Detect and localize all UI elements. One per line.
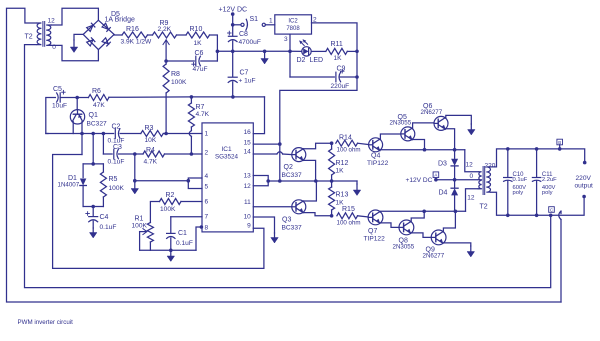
svg-text:A: A xyxy=(434,173,437,178)
label Q2 xyxy=(284,164,293,171)
wire Q3 collector xyxy=(303,181,316,201)
svg-text:+12V DC: +12V DC xyxy=(406,177,433,184)
resistor R16 xyxy=(122,32,148,38)
svg-text:7808: 7808 xyxy=(286,26,300,32)
label 100 ohm xyxy=(337,147,361,154)
svg-text:0.1uF: 0.1uF xyxy=(513,177,528,183)
wire IC2 pin2 right-down xyxy=(312,23,358,77)
diode D1 xyxy=(80,179,87,207)
wire bottom gnd row xyxy=(140,249,196,251)
label R1 xyxy=(135,216,144,223)
label TIP122 xyxy=(364,236,386,243)
junction xyxy=(190,95,194,99)
svg-text:C3: C3 xyxy=(113,144,122,151)
label 220 xyxy=(485,163,496,170)
svg-text:1K: 1K xyxy=(194,40,203,47)
diode D4 xyxy=(451,180,458,212)
terminal xyxy=(583,161,587,165)
wire Q1 collector leg xyxy=(81,122,83,155)
wire R6 to R7 to C7 bus xyxy=(109,96,265,98)
label 2N6277 xyxy=(421,109,443,116)
ground (Q9) xyxy=(467,246,475,257)
pin 10 label xyxy=(244,214,252,221)
wire R9 to R10 xyxy=(177,34,187,36)
label 0 (input secondary bottom) xyxy=(52,44,56,51)
junction xyxy=(80,132,84,136)
svg-text:Q1: Q1 xyxy=(89,112,98,119)
svg-text:2N3055: 2N3055 xyxy=(393,244,415,251)
wire node to R6 xyxy=(77,97,88,99)
wire C3 riser xyxy=(103,134,112,155)
label 100 ohm xyxy=(337,220,361,227)
svg-text:SG3524: SG3524 xyxy=(215,154,239,161)
label 2N3055 xyxy=(390,120,412,127)
label 10K xyxy=(145,137,157,144)
svg-text:2N6277: 2N6277 xyxy=(423,253,445,260)
label TIP122 xyxy=(367,160,389,167)
label 0.1uF xyxy=(108,138,125,145)
ground (Q6) xyxy=(468,124,476,135)
svg-text:poly: poly xyxy=(513,190,524,196)
label +12V DC xyxy=(219,7,248,14)
label R10 xyxy=(190,26,203,33)
label title xyxy=(18,319,74,326)
wire emitter rail top xyxy=(380,149,464,151)
pin 12 label xyxy=(244,183,252,190)
svg-text:+ 1uF: + 1uF xyxy=(239,78,256,85)
svg-text:3: 3 xyxy=(284,36,288,43)
svg-text:R5: R5 xyxy=(109,176,118,183)
svg-text:0.1uF: 0.1uF xyxy=(100,224,117,231)
svg-text:1K: 1K xyxy=(334,55,343,62)
resistor R8 xyxy=(163,61,169,134)
junction xyxy=(453,178,457,182)
svg-text:D3: D3 xyxy=(438,161,447,168)
net tag B xyxy=(557,139,563,149)
wire C3 to R4 xyxy=(119,153,135,155)
wire Q6 collector to gnd xyxy=(446,115,472,124)
wire Q6 emitter xyxy=(446,129,455,150)
junction xyxy=(91,132,95,136)
transistor Q3 xyxy=(292,200,306,214)
svg-text:1K: 1K xyxy=(336,168,345,175)
junction xyxy=(91,205,95,209)
label D3 xyxy=(438,161,447,168)
junction xyxy=(231,95,235,99)
label Q7 xyxy=(368,228,377,235)
transistor Q6 xyxy=(434,116,448,130)
label 1K xyxy=(334,55,343,62)
resistor R12 xyxy=(329,143,335,181)
label pin1 IC2 xyxy=(269,17,273,24)
junction xyxy=(535,214,539,218)
wire D1R5 box bottom xyxy=(83,206,103,208)
capacitor C11 xyxy=(532,149,540,215)
label 4700uF xyxy=(239,39,261,46)
svg-text:R8: R8 xyxy=(171,71,180,78)
wire outer feedback loop left/top (net C) xyxy=(7,8,562,302)
wire pin15 xyxy=(253,143,279,145)
label Q3 xyxy=(282,217,291,224)
label R5 xyxy=(109,176,118,183)
resistor R13 xyxy=(329,181,335,216)
label 400V xyxy=(542,185,556,191)
label 3.9K 1/2W xyxy=(121,39,153,46)
wire Q3 emitter xyxy=(303,213,331,216)
svg-text:100K: 100K xyxy=(132,223,148,230)
transistor Q1 xyxy=(70,98,84,125)
capacitor C7 xyxy=(228,51,237,97)
label 0 xyxy=(470,173,474,180)
svg-text:3.9K 1/2W: 3.9K 1/2W xyxy=(121,39,153,46)
junction xyxy=(355,75,359,79)
label C2 xyxy=(112,124,121,131)
svg-text:C6: C6 xyxy=(195,50,204,57)
diode D3 xyxy=(451,150,458,180)
svg-text:1A Bridge: 1A Bridge xyxy=(105,17,135,24)
wire R4 to pin2 xyxy=(165,153,203,155)
label C9 xyxy=(337,66,346,73)
wire +12V to T2 center xyxy=(436,179,478,181)
junction (R7 to pin2 row) xyxy=(190,152,194,156)
transistor Q5 xyxy=(401,127,415,141)
label R14 xyxy=(339,135,352,142)
junction xyxy=(454,210,458,214)
junction xyxy=(278,179,282,183)
svg-text:R13: R13 xyxy=(336,192,349,199)
label D5 xyxy=(111,11,120,18)
label 100K xyxy=(171,79,187,86)
svg-text:2: 2 xyxy=(205,150,209,157)
svg-text:Q2: Q2 xyxy=(284,164,293,171)
junction xyxy=(266,179,270,183)
label 1N4007 xyxy=(58,182,80,189)
label 100K xyxy=(109,185,125,192)
resistor R5 xyxy=(100,172,106,207)
ground (bus) xyxy=(261,54,269,65)
junction xyxy=(187,179,191,183)
label C7 xyxy=(240,70,249,77)
wire Q2 collector xyxy=(303,143,331,149)
junction xyxy=(278,142,282,146)
wire C2 to R3 xyxy=(120,133,141,135)
wiper R9 xyxy=(163,40,169,61)
junction xyxy=(288,50,292,54)
junction xyxy=(330,214,334,218)
wire Q4 emitter leg xyxy=(379,149,382,152)
label 47K xyxy=(93,102,105,109)
label 1K xyxy=(194,40,203,47)
svg-text:9: 9 xyxy=(247,223,251,230)
svg-text:R4: R4 xyxy=(146,147,155,154)
label C1 xyxy=(178,230,187,237)
svg-text:11: 11 xyxy=(244,199,251,206)
label R13 xyxy=(336,192,349,199)
svg-text:poly: poly xyxy=(542,190,553,196)
junction xyxy=(231,50,235,54)
svg-text:10uF: 10uF xyxy=(52,103,67,110)
label 10uF xyxy=(52,103,67,110)
junction (R8 to pin1 row) xyxy=(164,132,168,136)
wire pin7 xyxy=(171,216,202,218)
resistor R3 xyxy=(141,131,164,137)
label output xyxy=(575,183,594,190)
svg-text:Q4: Q4 xyxy=(371,153,380,160)
svg-text:12: 12 xyxy=(48,18,56,25)
transistor Q9 xyxy=(431,230,446,245)
svg-text:IC2: IC2 xyxy=(288,19,298,25)
junction xyxy=(558,147,562,151)
svg-text:2N3055: 2N3055 xyxy=(390,120,412,127)
wire D1R5 box top xyxy=(83,164,103,178)
label C4 xyxy=(100,214,109,221)
led D2 xyxy=(299,39,311,56)
svg-text:IC1: IC1 xyxy=(221,146,232,153)
wire bus to pin16 xyxy=(253,97,264,134)
label C3 xyxy=(113,144,122,151)
wire pins 4/5 bracket xyxy=(188,178,202,189)
svg-text:13: 13 xyxy=(244,173,252,180)
pin 1 label xyxy=(205,131,209,138)
wiper R1 xyxy=(140,229,147,251)
label 4.7K xyxy=(144,159,158,166)
svg-text:12: 12 xyxy=(244,183,252,190)
junction xyxy=(314,179,318,183)
label D2 xyxy=(297,57,306,64)
pin 5 label xyxy=(205,184,209,191)
svg-text:C2: C2 xyxy=(112,124,121,131)
wire Q8 emitter to Q9 base xyxy=(411,233,431,238)
junction (Q1 base node) xyxy=(75,96,79,100)
label LED xyxy=(310,57,324,64)
svg-text:R7: R7 xyxy=(196,104,205,111)
svg-text:TIP122: TIP122 xyxy=(367,160,389,167)
wire pin10 xyxy=(253,217,274,233)
label 1K xyxy=(336,200,345,207)
wire bus +12V row xyxy=(217,50,301,52)
junction xyxy=(133,179,137,183)
svg-text:C9: C9 xyxy=(337,66,346,73)
svg-text:6: 6 xyxy=(205,199,209,206)
svg-text:D2: D2 xyxy=(297,57,306,64)
label Q5 xyxy=(398,114,407,121)
ground (bridge) xyxy=(70,40,78,53)
junction xyxy=(102,132,106,136)
junction xyxy=(91,162,95,166)
label C8 xyxy=(239,31,248,38)
wire C6 right xyxy=(201,60,218,62)
junction xyxy=(169,249,173,253)
capacitor C10 xyxy=(504,149,512,215)
junction xyxy=(133,152,137,156)
label R3 xyxy=(145,125,154,132)
wire C9 left xyxy=(290,51,334,77)
svg-text:Q3: Q3 xyxy=(282,217,291,224)
svg-text:12: 12 xyxy=(467,195,475,202)
junction (R9 wiper/R8/C6) xyxy=(164,59,168,63)
transistor Q8 xyxy=(399,220,414,235)
pin 2 label xyxy=(205,150,209,157)
svg-text:R1: R1 xyxy=(135,216,144,223)
svg-text:14: 14 xyxy=(244,149,252,156)
svg-text:C4: C4 xyxy=(100,214,109,221)
svg-text:15: 15 xyxy=(244,140,252,147)
svg-text:R3: R3 xyxy=(145,125,154,132)
pin 11 label xyxy=(244,199,251,206)
pin 14 label xyxy=(244,149,252,156)
svg-text:S1: S1 xyxy=(250,16,259,23)
svg-text:220V: 220V xyxy=(576,175,592,182)
svg-text:4: 4 xyxy=(205,173,209,180)
pin 13 label xyxy=(244,173,252,180)
wire secondary-bottom to bridge xyxy=(52,45,99,60)
svg-text:2: 2 xyxy=(313,16,317,23)
junction (pin8) xyxy=(200,225,204,229)
svg-text:R11: R11 xyxy=(331,41,343,48)
label C5 xyxy=(53,86,62,93)
transistor Q2 xyxy=(292,148,306,162)
label R6 xyxy=(92,88,101,95)
junction xyxy=(453,148,457,152)
label R11 xyxy=(331,41,343,48)
label R15 xyxy=(342,206,355,213)
svg-text:R16: R16 xyxy=(126,26,139,33)
wire Q5 collector to Q6 base xyxy=(413,123,434,129)
label 0.1uF xyxy=(100,224,117,231)
wire riser to D1R5 box xyxy=(92,134,94,164)
svg-text:2.2uF: 2.2uF xyxy=(542,177,557,183)
label 0.1uF xyxy=(108,159,125,166)
wire 8V rail xyxy=(268,181,357,184)
wire Q2 emitter xyxy=(303,160,315,181)
svg-text:Q7: Q7 xyxy=(368,228,377,235)
label Q6 xyxy=(423,103,432,110)
transformer T2 (output) xyxy=(478,167,491,195)
label + 1uF xyxy=(239,78,256,85)
wire rail to T2 pri top xyxy=(465,150,478,172)
bridge rectifier D5 xyxy=(83,20,114,49)
label BC327 xyxy=(87,121,107,128)
svg-text:C7: C7 xyxy=(240,70,249,77)
svg-text:PWM inverter circuit: PWM inverter circuit xyxy=(18,319,74,326)
svg-text:T2: T2 xyxy=(25,34,33,41)
wire Q9 emitter to gnd xyxy=(443,243,470,246)
wire Q9 collector xyxy=(443,211,455,232)
resistor R4 xyxy=(143,151,165,157)
terminal xyxy=(582,195,586,199)
junction xyxy=(263,50,267,54)
junction xyxy=(330,141,334,145)
capacitor C4 xyxy=(86,207,98,229)
resistor R15 xyxy=(337,213,358,219)
junction xyxy=(535,147,539,151)
wire bridge-right to R16 xyxy=(114,34,122,36)
svg-text:BC337: BC337 xyxy=(282,172,302,179)
label Q9 xyxy=(426,247,435,254)
wire xyxy=(135,153,143,155)
capacitor C9 xyxy=(336,69,357,81)
wire rail to T2 pri bottom xyxy=(466,189,478,212)
label T2 (output) xyxy=(480,204,488,211)
junction xyxy=(355,50,359,54)
regulator IC2 7808 xyxy=(275,15,312,34)
pin 16 label xyxy=(244,129,252,136)
svg-text:1N4007: 1N4007 xyxy=(58,182,80,189)
label 2N6277 xyxy=(423,253,445,260)
label BC337 xyxy=(282,225,302,232)
svg-text:T2: T2 xyxy=(480,204,488,211)
label Q8 xyxy=(399,238,408,245)
svg-text:12: 12 xyxy=(466,162,474,169)
svg-text:C8: C8 xyxy=(239,31,248,38)
svg-text:R2: R2 xyxy=(166,192,175,199)
label D4 xyxy=(439,190,448,197)
label R16 xyxy=(126,26,139,33)
svg-text:BC327: BC327 xyxy=(87,121,107,128)
label D1 xyxy=(68,175,77,182)
label poly xyxy=(513,190,524,196)
wire Q1 emitter leg xyxy=(72,122,74,134)
svg-text:100 ohm: 100 ohm xyxy=(337,220,361,227)
wire pin8 xyxy=(196,227,201,250)
wire sec top xyxy=(491,149,585,167)
pin 4 label xyxy=(205,173,209,180)
wire pin11 to Q3 xyxy=(253,206,291,208)
capacitor C8 xyxy=(228,31,238,51)
svg-text:10: 10 xyxy=(244,214,252,221)
label R8 xyxy=(171,71,180,78)
svg-text:R12: R12 xyxy=(336,160,349,167)
net tag C xyxy=(549,207,555,213)
label R9 xyxy=(160,20,169,27)
wire R3 to pin1 xyxy=(163,133,202,135)
junction xyxy=(422,210,426,214)
svg-text:R14: R14 xyxy=(339,135,352,142)
wire C5 right to node xyxy=(60,97,77,99)
svg-text:5: 5 xyxy=(205,184,209,191)
label 4.7K xyxy=(196,111,210,118)
transistor Q4 xyxy=(369,138,383,152)
label 12 (top) xyxy=(466,162,474,169)
resistor R1 (preset) xyxy=(147,223,153,251)
capacitor C3 xyxy=(114,149,119,159)
junction xyxy=(423,148,427,152)
label 2N3055 xyxy=(393,244,415,251)
label poly xyxy=(542,190,553,196)
svg-text:R15: R15 xyxy=(342,206,355,213)
resistor R14 xyxy=(336,140,358,146)
svg-text:220uF: 220uF xyxy=(331,83,350,90)
svg-text:BC337: BC337 xyxy=(282,225,302,232)
wire Q5 emitter xyxy=(413,140,425,150)
resistor R7 xyxy=(188,97,194,154)
label C6 xyxy=(195,50,204,57)
svg-text:output: output xyxy=(575,183,594,190)
resistor R2 xyxy=(160,199,182,205)
svg-text:10K: 10K xyxy=(145,137,157,144)
wire pin9 loop xyxy=(53,155,264,269)
capacitor C6 xyxy=(192,56,201,66)
node +12V terminal xyxy=(231,12,235,36)
capacitor C1 xyxy=(167,217,175,251)
label 12 (bottom) xyxy=(467,195,475,202)
svg-text:7: 7 xyxy=(205,214,209,221)
svg-text:47K: 47K xyxy=(93,102,105,109)
wire R15 to Q7 xyxy=(358,216,369,217)
resistor R10 xyxy=(186,32,210,38)
label pin2 IC2 xyxy=(313,16,317,23)
resistor R6 xyxy=(88,95,109,101)
